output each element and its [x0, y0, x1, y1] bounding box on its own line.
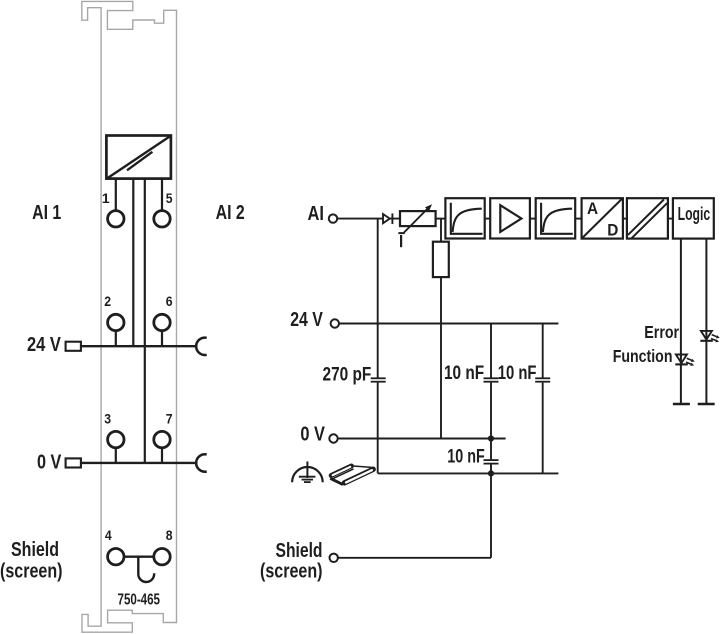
0V bus line [81, 462, 198, 464]
terminal 6 [154, 314, 170, 330]
shield hook symbol [138, 557, 154, 582]
shield wire vertical [490, 473, 492, 557]
svg-text:270 pF: 270 pF [323, 363, 372, 385]
wire resistor R1 to 0V line [440, 277, 442, 438]
wire U1 to terminal 5 [161, 179, 163, 211]
diode D1 [383, 213, 392, 224]
capacitor C4 10nF wire lower [490, 465, 492, 474]
0V field connector rect [66, 458, 81, 467]
svg-text:AI: AI [308, 202, 325, 225]
filter block 1 [445, 198, 484, 238]
wire U1 to terminal 1 [115, 179, 117, 211]
wire U1 internal right to 0V bus [144, 179, 146, 463]
Error LED [700, 331, 720, 342]
wire U1 internal left to 24V bus [132, 179, 134, 347]
DIN rail symbol [330, 466, 375, 486]
svg-text:AI 1: AI 1 [32, 201, 61, 224]
Logic block [673, 198, 714, 238]
capacitor C1 270pF branch wire lower [377, 383, 379, 474]
0V line [338, 438, 506, 440]
capacitor C3 10nF branch wire lower [542, 383, 544, 474]
svg-text:Logic: Logic [678, 204, 711, 224]
svg-text:24 V: 24 V [290, 308, 323, 331]
svg-text:(screen): (screen) [260, 559, 323, 582]
functional earth symbol [292, 462, 323, 483]
Function LED [675, 355, 695, 366]
wire attenuator to filter 1 [436, 218, 446, 220]
capacitor C3 10nF branch wire upper [542, 324, 544, 378]
svg-text:24 V: 24 V [27, 333, 61, 356]
terminal 1 [108, 211, 124, 227]
svg-text:7: 7 [166, 411, 173, 427]
capacitor C2 10nF branch wire upper [490, 324, 492, 378]
capacitor C3 10nF plates [535, 378, 550, 381]
junction dot shield bus [488, 470, 494, 476]
shield node [330, 554, 338, 562]
svg-text:1: 1 [102, 191, 110, 207]
terminal 4 [108, 549, 124, 565]
svg-text:3: 3 [104, 411, 111, 427]
svg-text:10 nF: 10 nF [498, 362, 537, 384]
A/D converter block [582, 198, 623, 239]
AI input node [329, 214, 337, 222]
24V node [331, 319, 339, 327]
svg-text:10 nF: 10 nF [444, 362, 484, 384]
stem terminal 7 to 0V bus [161, 448, 163, 463]
svg-text:AI 2: AI 2 [216, 201, 245, 224]
shield bus line [378, 472, 559, 474]
filter block 2 [536, 198, 576, 238]
resistor R1 [433, 242, 449, 277]
svg-text:Shield: Shield [11, 538, 59, 561]
terminal 3 [108, 431, 124, 447]
terminal 2 [108, 314, 124, 330]
24V cage clamp arc [196, 338, 207, 355]
terminator bar left line [673, 403, 690, 405]
svg-text:6: 6 [166, 294, 173, 310]
svg-text:5: 5 [166, 191, 173, 207]
capacitor C4 10nF plates [484, 460, 499, 464]
stem terminal 6 to 24V bus [161, 331, 163, 346]
svg-text:Function: Function [613, 346, 673, 366]
0V cage clamp arc [196, 454, 207, 471]
stem terminal 3 to 0V bus [115, 448, 117, 463]
capacitor C2 10nF branch wire lower [490, 383, 492, 439]
attenuator box (adjustable) [398, 204, 435, 247]
svg-text:4: 4 [105, 528, 112, 544]
capacitor C2 10nF plates [484, 378, 499, 381]
converter U1 (isolated transducer box) [106, 136, 170, 179]
24V field connector rect [66, 342, 81, 351]
0V node [329, 434, 337, 442]
svg-text:750-465: 750-465 [118, 592, 161, 609]
svg-text:0 V: 0 V [37, 450, 62, 473]
svg-text:0 V: 0 V [300, 422, 325, 445]
svg-text:A: A [587, 199, 598, 218]
svg-text:8: 8 [166, 528, 173, 544]
terminal 5 [154, 211, 170, 227]
terminal 7 [154, 431, 170, 447]
capacitor C1 270pF branch wire upper [377, 219, 379, 378]
wire amplifier to filter 2 [530, 218, 536, 220]
svg-text:Error: Error [644, 322, 679, 342]
AI wire [337, 218, 400, 220]
LED supply line right (Error) [705, 239, 707, 404]
capacitor C4 10nF wire upper [490, 439, 492, 460]
amplifier block [490, 198, 530, 238]
capacitor C1 270pF plates [371, 378, 386, 381]
wire filter1 to amplifier [485, 218, 491, 220]
wire isolation to logic [668, 218, 673, 220]
wire filter2 to A/D [575, 218, 581, 220]
24V line [339, 323, 558, 325]
svg-text:10 nF: 10 nF [447, 445, 484, 467]
wire A/D to isolation [623, 218, 627, 220]
shield link bar terminals 4-8 [124, 556, 154, 558]
junction dot 0V [488, 435, 494, 441]
svg-text:2: 2 [104, 294, 111, 310]
LED supply line left (Function) [680, 239, 682, 404]
stem terminal 2 to 24V bus [115, 331, 117, 346]
svg-text:(screen): (screen) [0, 559, 63, 582]
wire down to resistor R1 [440, 219, 442, 242]
svg-text:D: D [607, 220, 618, 239]
shield wire horizontal [338, 557, 491, 559]
terminal 8 [154, 549, 170, 565]
isolation block [627, 198, 668, 238]
24V bus line [81, 345, 198, 347]
terminator bar right line [698, 403, 715, 405]
module housing outline 750-465 [82, 1, 177, 632]
